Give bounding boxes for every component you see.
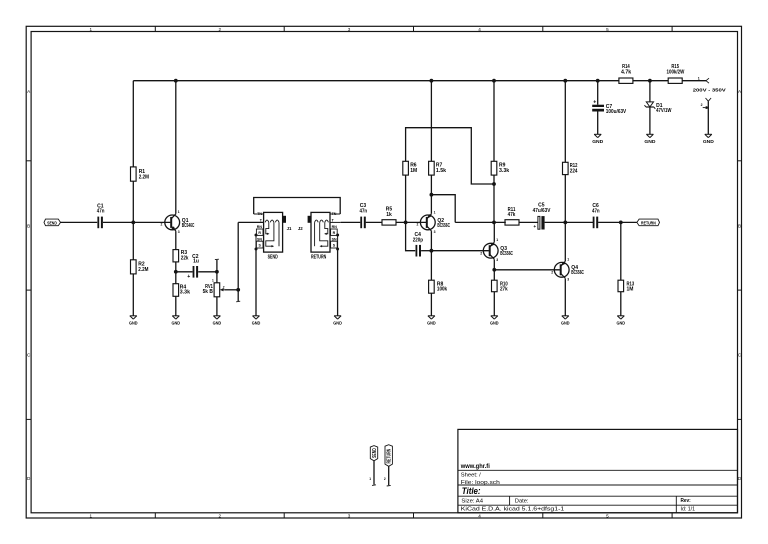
svg-text:2: 2	[223, 286, 225, 290]
svg-text:2: 2	[417, 222, 419, 226]
svg-text:R: R	[258, 231, 261, 235]
svg-text:Title:: Title:	[462, 486, 481, 496]
svg-text:B: B	[27, 224, 30, 229]
svg-text:3: 3	[434, 230, 436, 234]
svg-text:GND: GND	[172, 320, 181, 325]
svg-text:B: B	[738, 224, 741, 229]
svg-text:1: 1	[567, 257, 569, 261]
svg-text:R15: R15	[671, 64, 679, 70]
svg-text:GND: GND	[703, 139, 715, 144]
svg-text:1.5k: 1.5k	[436, 168, 446, 174]
svg-text:3: 3	[178, 230, 180, 234]
svg-text:100k: 100k	[437, 286, 447, 292]
svg-text:2: 2	[480, 251, 482, 255]
svg-text:2: 2	[219, 27, 222, 32]
svg-text:2: 2	[701, 103, 703, 107]
svg-text:47u/63V: 47u/63V	[533, 208, 551, 214]
svg-text:GND: GND	[427, 320, 436, 325]
svg-text:RETURN: RETURN	[641, 220, 656, 226]
svg-text:47k: 47k	[508, 212, 516, 218]
svg-text:2: 2	[161, 222, 163, 226]
svg-text:1M: 1M	[410, 168, 417, 174]
svg-text:RN: RN	[332, 225, 338, 229]
svg-text:4.7k: 4.7k	[621, 70, 631, 76]
svg-text:1: 1	[496, 238, 498, 242]
svg-text:R2: R2	[138, 262, 145, 268]
svg-text:2.2M: 2.2M	[139, 175, 149, 181]
svg-text:100u/63V: 100u/63V	[606, 109, 627, 115]
svg-text:R14: R14	[622, 64, 630, 70]
svg-text:BC556C: BC556C	[437, 223, 450, 229]
svg-text:SEND: SEND	[372, 448, 378, 458]
svg-text:3.3k: 3.3k	[499, 168, 509, 174]
svg-text:1: 1	[178, 210, 180, 214]
svg-text:1: 1	[369, 477, 371, 481]
svg-text:3.3k: 3.3k	[180, 289, 190, 295]
svg-text:47n: 47n	[592, 209, 600, 215]
svg-text:GND: GND	[617, 320, 626, 325]
svg-text:1: 1	[90, 513, 93, 518]
svg-text:R1: R1	[139, 169, 146, 175]
svg-text:GND: GND	[252, 320, 261, 325]
svg-text:+: +	[533, 225, 536, 230]
svg-text:200V - 350V: 200V - 350V	[693, 88, 727, 94]
svg-text:1: 1	[698, 76, 700, 80]
svg-text:100k/2W: 100k/2W	[666, 70, 684, 76]
svg-text:5: 5	[606, 513, 609, 518]
svg-text:22k: 22k	[181, 255, 189, 261]
svg-text:3: 3	[348, 27, 351, 32]
svg-text:SEND: SEND	[47, 220, 57, 226]
svg-text:J1: J1	[287, 226, 292, 231]
svg-text:4: 4	[478, 513, 481, 518]
svg-text:BC546C: BC546C	[182, 223, 195, 229]
svg-text:1k: 1k	[386, 212, 392, 218]
svg-text:1u: 1u	[193, 258, 199, 264]
svg-text:R9: R9	[499, 163, 506, 169]
svg-text:Sheet: /: Sheet: /	[461, 473, 481, 479]
svg-text:47n: 47n	[359, 209, 367, 215]
svg-text:2.2M: 2.2M	[138, 267, 148, 273]
svg-text:2: 2	[384, 477, 386, 481]
svg-text:27k: 27k	[500, 286, 508, 292]
svg-text:2: 2	[219, 513, 222, 518]
svg-text:2: 2	[551, 270, 553, 274]
svg-text:47V/1W: 47V/1W	[656, 108, 672, 114]
svg-text:220p: 220p	[413, 237, 423, 243]
svg-text:3: 3	[348, 513, 351, 518]
svg-text:224: 224	[570, 168, 578, 174]
svg-text:1M: 1M	[627, 286, 634, 292]
svg-text:BC556C: BC556C	[571, 270, 584, 276]
svg-text:R7: R7	[436, 163, 443, 169]
svg-text:J2: J2	[298, 226, 303, 231]
svg-text:3: 3	[496, 258, 498, 262]
svg-text:GND: GND	[333, 320, 342, 325]
svg-text:5k B: 5k B	[203, 289, 214, 295]
svg-text:R: R	[333, 231, 336, 235]
svg-text:RN: RN	[257, 225, 263, 229]
svg-text:GND: GND	[129, 320, 138, 325]
svg-text:+: +	[187, 274, 190, 280]
svg-text:GND: GND	[561, 320, 570, 325]
svg-text:KiCad E.D.A. kicad 5.1.6+dfsg: KiCad E.D.A. kicad 5.1.6+dfsg1-1	[461, 507, 564, 513]
svg-text:1: 1	[212, 279, 214, 283]
svg-text:5: 5	[606, 27, 609, 32]
svg-text:RETURN: RETURN	[311, 254, 327, 260]
svg-text:SEND: SEND	[268, 254, 278, 260]
svg-text:SN: SN	[257, 237, 262, 241]
svg-text:SN: SN	[332, 237, 337, 241]
svg-text:BC556C: BC556C	[500, 251, 513, 257]
svg-text:Size: A4: Size: A4	[461, 499, 483, 505]
svg-text:GND: GND	[213, 320, 222, 325]
svg-text:47n: 47n	[97, 209, 105, 215]
svg-text:GND: GND	[644, 139, 656, 144]
svg-text:Id: 1/1: Id: 1/1	[681, 507, 696, 513]
svg-text:GND: GND	[592, 139, 604, 144]
svg-text:3: 3	[567, 277, 569, 281]
svg-text:4: 4	[478, 27, 481, 32]
svg-text:www.ghr.fi: www.ghr.fi	[460, 463, 490, 470]
svg-text:+: +	[593, 100, 596, 106]
svg-text:1: 1	[90, 27, 93, 32]
svg-text:Date:: Date:	[515, 499, 529, 505]
svg-text:1: 1	[434, 210, 436, 214]
svg-text:GND: GND	[490, 320, 499, 325]
svg-text:R6: R6	[410, 163, 417, 169]
svg-text:RETURN: RETURN	[387, 449, 393, 464]
svg-text:Rev:: Rev:	[681, 498, 691, 504]
